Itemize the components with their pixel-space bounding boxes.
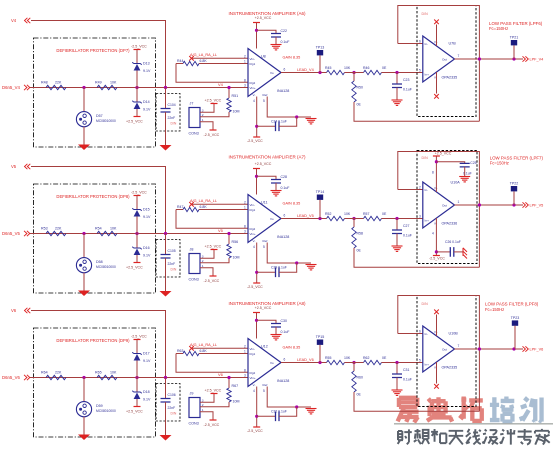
svg-text:U8: U8 bbox=[261, 55, 266, 59]
node junction testpoint out bbox=[512, 203, 515, 206]
power bar -2.5_VCC bbox=[210, 275, 217, 277]
svg-text:Vin+: Vin+ bbox=[250, 232, 256, 236]
wire zener to +2.5_VCC bbox=[136, 255, 138, 263]
svg-text:INA128: INA128 bbox=[277, 379, 289, 383]
svg-text:V6: V6 bbox=[11, 308, 17, 313]
watermark glyph small 6 bbox=[483, 429, 498, 444]
svg-text:6.8K: 6.8K bbox=[200, 349, 208, 353]
svg-text:Fc=150Hz: Fc=150Hz bbox=[490, 161, 509, 166]
no-ERC marker X bbox=[189, 202, 194, 207]
svg-text:5: 5 bbox=[263, 389, 265, 393]
svg-text:0.1uF: 0.1uF bbox=[281, 330, 290, 334]
svg-text:10M: 10M bbox=[233, 400, 240, 404]
wire feedback top rail bbox=[398, 296, 480, 412]
svg-text:R44: R44 bbox=[177, 59, 183, 63]
capacitor C106 22nF bbox=[161, 399, 171, 403]
resistor R64 22K bbox=[46, 375, 66, 379]
wire J pin2 to R 10M bbox=[200, 258, 229, 263]
node junction bypass cap bbox=[255, 319, 258, 322]
wire bypass cap to ground bbox=[464, 167, 466, 177]
ground bbox=[78, 145, 90, 151]
node junction V4 / C cap bbox=[164, 86, 167, 89]
power bar -2.5_VCC amp bbox=[253, 136, 260, 138]
svg-text:R57: R57 bbox=[363, 212, 369, 216]
resistor R53 22K bbox=[46, 231, 66, 235]
resistor R56 10M bbox=[227, 244, 231, 258]
wire Rg2 loop bbox=[176, 210, 248, 229]
svg-text:C24 0.1uF: C24 0.1uF bbox=[271, 119, 287, 123]
svg-text:Vin-: Vin- bbox=[250, 347, 255, 351]
svg-text:R62: R62 bbox=[363, 356, 369, 360]
svg-text:22K: 22K bbox=[55, 80, 62, 84]
svg-text:5: 5 bbox=[419, 69, 421, 73]
op-amp U10A OPA2336 low pass filter bbox=[423, 182, 457, 228]
node junction R divider bbox=[352, 361, 355, 364]
svg-text:-2.5_VCC: -2.5_VCC bbox=[247, 139, 263, 143]
svg-text:10M: 10M bbox=[233, 110, 240, 114]
wire to cap bbox=[165, 378, 167, 399]
svg-text:2: 2 bbox=[244, 200, 246, 204]
svg-text:1: 1 bbox=[244, 350, 246, 354]
svg-text:9.1V: 9.1V bbox=[143, 359, 151, 363]
resistor R62 0E bbox=[364, 360, 382, 364]
power bar +2.5_VCC amp bbox=[253, 312, 260, 314]
wire to R vertical bbox=[353, 219, 355, 228]
svg-text:0E: 0E bbox=[382, 356, 387, 360]
watermark glyph big 3 bbox=[459, 397, 482, 421]
watermark glyph small 5 bbox=[466, 429, 481, 444]
svg-text:V4: V4 bbox=[11, 18, 17, 23]
ground filter cap bbox=[392, 390, 403, 395]
svg-text:INSTRUMENTATION AMPLIFIER (A7): INSTRUMENTATION AMPLIFIER (A7) bbox=[228, 154, 306, 159]
svg-text:OPA2335: OPA2335 bbox=[442, 366, 458, 370]
connector chevron V5 bbox=[25, 164, 31, 169]
svg-text:INA128: INA128 bbox=[277, 89, 289, 93]
svg-text:DEFIBRILLATOR PROTECTION (DP7): DEFIBRILLATOR PROTECTION (DP7) bbox=[56, 48, 130, 53]
node junction bypass cap bbox=[255, 175, 258, 178]
no-connect X V- bbox=[434, 94, 439, 99]
svg-text:Fc=150Hz: Fc=150Hz bbox=[485, 307, 504, 312]
svg-text:-2.5_VCC: -2.5_VCC bbox=[247, 285, 263, 289]
connector J7 CON3 bbox=[189, 102, 204, 136]
svg-text:D6n5_V4: D6n5_V4 bbox=[2, 85, 21, 90]
svg-text:-2.5_VCC: -2.5_VCC bbox=[247, 429, 263, 433]
power bar -2.5_VCC amp bbox=[253, 426, 260, 428]
svg-text:D/N: D/N bbox=[171, 411, 177, 415]
svg-text:5: 5 bbox=[263, 99, 265, 103]
svg-text:V5: V5 bbox=[11, 164, 17, 169]
svg-text:9.1V: 9.1V bbox=[143, 108, 151, 112]
svg-text:C106: C106 bbox=[168, 393, 176, 397]
node junction feedback bbox=[478, 57, 481, 60]
svg-text:CON3: CON3 bbox=[189, 278, 199, 282]
resistor R48 22K bbox=[46, 85, 66, 89]
power bar +2.5_VCC bbox=[211, 103, 218, 105]
svg-text:7: 7 bbox=[458, 54, 460, 58]
svg-text:LPF_V4: LPF_V4 bbox=[530, 58, 544, 62]
node junction R divider bbox=[352, 71, 355, 74]
wire V+ pin bbox=[436, 25, 438, 46]
svg-text:Ref: Ref bbox=[263, 383, 268, 387]
svg-text:1: 1 bbox=[458, 200, 460, 204]
power bar -2.5_VCC bbox=[134, 49, 141, 51]
watermark glyph big 5 bbox=[521, 398, 542, 422]
svg-text:-2.5_VCC: -2.5_VCC bbox=[204, 423, 220, 427]
ground bypass bbox=[271, 191, 282, 196]
wire filter cap to ground bbox=[396, 234, 398, 247]
resistor R60 0E vertical bbox=[352, 371, 356, 392]
wire amp Ref bbox=[267, 97, 311, 118]
ground bbox=[78, 291, 90, 297]
svg-text:D16: D16 bbox=[143, 246, 150, 250]
svg-text:C23: C23 bbox=[403, 78, 409, 82]
zener diode D13 9.1V bbox=[132, 62, 151, 73]
capacitor C104 dashed box (D/N) bbox=[156, 94, 180, 132]
connector J8 CON3 bbox=[189, 248, 204, 282]
wire Rg2 loop bbox=[176, 354, 248, 373]
node junction testpoint out bbox=[512, 57, 515, 60]
svg-text:5: 5 bbox=[263, 245, 265, 249]
svg-text:8: 8 bbox=[244, 224, 246, 228]
svg-text:0.1uF: 0.1uF bbox=[281, 40, 290, 44]
wire ref cap to ref node bbox=[279, 263, 297, 272]
wire node to zener 2 bbox=[136, 234, 138, 249]
wire node to R 10M bbox=[228, 88, 230, 99]
wire to LPF input bbox=[382, 218, 423, 220]
ground bypass bbox=[271, 45, 282, 50]
node junction V6 / C cap bbox=[164, 376, 167, 379]
svg-text:10K: 10K bbox=[344, 212, 351, 216]
svg-text:C105: C105 bbox=[168, 249, 176, 253]
node junction LPF bypass bbox=[435, 160, 438, 163]
svg-text:V-: V- bbox=[253, 383, 256, 387]
svg-text:-2.5_VCC: -2.5_VCC bbox=[131, 45, 147, 49]
svg-text:U10B: U10B bbox=[449, 332, 459, 336]
wire to cap bbox=[165, 234, 167, 255]
svg-text:LOW PASS FILTER (LPF6): LOW PASS FILTER (LPF6) bbox=[489, 21, 543, 26]
wire +2.5_VCC to amp pin7 bbox=[256, 169, 258, 195]
svg-text:+2.5_VCC: +2.5_VCC bbox=[255, 16, 272, 20]
svg-text:D/N: D/N bbox=[422, 302, 429, 306]
watermark glyph small 4 bbox=[449, 431, 464, 445]
capacitor C106 dashed box (D/N) bbox=[156, 384, 180, 422]
svg-text:1: 1 bbox=[244, 60, 246, 64]
svg-text:DEFIBRILLATOR PROTECTION (DP8): DEFIBRILLATOR PROTECTION (DP8) bbox=[56, 194, 130, 199]
wire net V4 top loop bbox=[31, 21, 166, 88]
wire cap to slant ground bbox=[454, 251, 463, 253]
svg-text:2: 2 bbox=[244, 344, 246, 348]
connector chevron D6n5_V5 bbox=[24, 231, 30, 236]
wire between resistors bbox=[345, 362, 364, 364]
svg-text:D58: D58 bbox=[96, 260, 103, 264]
wire gas tube to ground bbox=[83, 127, 85, 145]
node junction V4 net bbox=[227, 86, 230, 89]
svg-text:R54: R54 bbox=[95, 226, 102, 230]
resistor R45 10K bbox=[327, 70, 345, 74]
test point TP23 bbox=[511, 316, 520, 349]
node junction filter cap bbox=[395, 217, 398, 220]
wire +2.5_VCC to amp pin7 bbox=[256, 23, 258, 49]
svg-text:U12: U12 bbox=[261, 345, 268, 349]
svg-text:Vin-: Vin- bbox=[250, 203, 255, 207]
capacitor C22 0.1uF bbox=[271, 34, 281, 38]
node junction V5 net bbox=[227, 232, 230, 235]
ground bbox=[160, 291, 172, 297]
capacitor C26 0.1uF bbox=[450, 247, 454, 257]
svg-text:D57: D57 bbox=[96, 114, 103, 118]
svg-text:CON3: CON3 bbox=[189, 422, 199, 426]
svg-text:Rg1: Rg1 bbox=[250, 62, 256, 66]
test point TP22 bbox=[510, 182, 519, 206]
svg-text:DEFIBRILLATOR PROTECTION (DP9): DEFIBRILLATOR PROTECTION (DP9) bbox=[56, 338, 130, 343]
ground filter cap bbox=[392, 100, 403, 105]
svg-text:D14: D14 bbox=[143, 100, 150, 104]
svg-text:In-: In- bbox=[425, 42, 429, 46]
svg-text:2: 2 bbox=[419, 186, 421, 190]
ground filter cap bbox=[392, 246, 403, 251]
capacitor C105 dashed box (D/N) bbox=[156, 240, 180, 278]
svg-text:3: 3 bbox=[244, 230, 246, 234]
svg-text:In+: In+ bbox=[425, 219, 430, 223]
svg-text:C30: C30 bbox=[281, 319, 287, 323]
node junction ref cap bbox=[255, 271, 258, 274]
svg-text:R46: R46 bbox=[363, 66, 369, 70]
svg-text:4: 4 bbox=[432, 232, 434, 236]
ground bbox=[160, 435, 172, 441]
svg-text:0E: 0E bbox=[357, 249, 362, 253]
wire to gas tube bbox=[83, 378, 85, 402]
power bar +2.5_VCC bbox=[134, 262, 141, 264]
svg-text:Vin+: Vin+ bbox=[250, 86, 256, 90]
svg-text:Vo: Vo bbox=[270, 361, 274, 365]
resistor R50 0E vertical bbox=[352, 81, 356, 102]
wire to bypass cap bbox=[257, 176, 277, 179]
resistor R51 10M bbox=[227, 98, 231, 112]
gas discharge tube D58 MC08010000 bbox=[76, 258, 116, 273]
resistor R44 6.8K bbox=[183, 61, 199, 65]
svg-text:0E: 0E bbox=[357, 393, 362, 397]
svg-text:8: 8 bbox=[244, 78, 246, 82]
svg-text:Out: Out bbox=[442, 203, 447, 207]
wire to gas tube bbox=[83, 234, 85, 258]
capacitor C104 22nF bbox=[161, 109, 171, 113]
wire Vin- input bbox=[192, 347, 249, 349]
resistor R52 10K bbox=[327, 216, 345, 220]
wire net V5 top loop bbox=[31, 167, 166, 234]
svg-text:0E: 0E bbox=[382, 212, 387, 216]
svg-text:D17: D17 bbox=[143, 352, 150, 356]
svg-text:R49: R49 bbox=[95, 80, 102, 84]
capacitor C105 22nF bbox=[161, 255, 171, 259]
svg-text:D13: D13 bbox=[143, 62, 150, 66]
wire gas tube to ground bbox=[83, 273, 85, 291]
op-amp U8 INA128 instrumentation amplifier bbox=[248, 49, 289, 98]
wire Rg1 bbox=[199, 63, 248, 65]
svg-text:2: 2 bbox=[244, 54, 246, 58]
watermark glyph small 7 bbox=[500, 429, 515, 445]
svg-text:Rg2: Rg2 bbox=[250, 371, 256, 375]
connector chevron D6n5_V4 bbox=[24, 85, 30, 90]
svg-text:-2.5_VCC: -2.5_VCC bbox=[204, 133, 220, 137]
wire zener to node bbox=[136, 361, 138, 378]
svg-text:D6n5_V6: D6n5_V6 bbox=[2, 375, 21, 380]
watermark underline bbox=[394, 423, 553, 425]
power bar +2.5_VCC bbox=[134, 116, 141, 118]
capacitor C28 0.1uF bbox=[271, 180, 281, 184]
svg-text:9.1V: 9.1V bbox=[143, 254, 151, 258]
no-ERC marker X bbox=[189, 346, 194, 351]
ground ref bbox=[306, 119, 317, 124]
svg-text:J8: J8 bbox=[190, 248, 194, 252]
wire to ref cap bbox=[257, 271, 276, 273]
ground bypass bbox=[271, 335, 282, 340]
svg-text:0.1uF: 0.1uF bbox=[281, 186, 290, 190]
wire node to R 10M bbox=[228, 234, 230, 245]
power bar +2.5_VCC bbox=[134, 406, 141, 408]
wire Rg1 loop left bbox=[176, 63, 183, 65]
wire cap to ground bbox=[275, 327, 277, 335]
gas discharge tube D57 MC08010000 bbox=[76, 112, 116, 127]
wire to LPF bypass cap bbox=[436, 162, 464, 164]
wire cap to ground bbox=[165, 402, 167, 435]
wire to R vertical bbox=[353, 363, 355, 372]
wire main signal net V5 bbox=[30, 233, 248, 235]
node junction filter cap bbox=[395, 71, 398, 74]
svg-text:+2.5_VCC: +2.5_VCC bbox=[205, 389, 222, 393]
wire feedback top rail bbox=[398, 152, 480, 268]
wire amp V- to -2.5_VCC bbox=[256, 97, 258, 138]
wire ref cap to ref node bbox=[279, 407, 297, 416]
zener diode D16 9.1V bbox=[132, 246, 151, 257]
svg-text:R47: R47 bbox=[177, 205, 183, 209]
node junction V5 / C cap bbox=[164, 232, 167, 235]
svg-text:-2.5_VCC: -2.5_VCC bbox=[429, 257, 445, 261]
svg-text:6: 6 bbox=[419, 330, 421, 334]
svg-text:3: 3 bbox=[244, 374, 246, 378]
svg-text:+2.5_VCC: +2.5_VCC bbox=[255, 162, 272, 166]
svg-text:-2.5_VCC: -2.5_VCC bbox=[204, 279, 220, 283]
wire gas tube to ground bbox=[83, 417, 85, 435]
test point TP13 bbox=[316, 46, 325, 73]
svg-text:4: 4 bbox=[253, 389, 255, 393]
low pass filter block LPF6 dashed box bbox=[417, 6, 476, 117]
svg-text:R52: R52 bbox=[325, 212, 331, 216]
svg-text:GAIN 8.35: GAIN 8.35 bbox=[283, 346, 301, 350]
svg-text:R67: R67 bbox=[232, 384, 239, 388]
svg-text:R55: R55 bbox=[325, 356, 331, 360]
svg-text:+2.5_VCC: +2.5_VCC bbox=[126, 266, 143, 270]
svg-text:0.1uF: 0.1uF bbox=[403, 88, 412, 92]
capacitor C24 0.1uF ref bbox=[276, 122, 280, 132]
wire V+ pin bbox=[436, 315, 438, 336]
op-amp U7B OPA2335 low pass filter bbox=[423, 36, 457, 82]
node junction ref cap 2 bbox=[295, 405, 298, 408]
wire to gas tube bbox=[83, 88, 85, 112]
svg-text:C27: C27 bbox=[403, 224, 409, 228]
svg-text:GAIN 8.35: GAIN 8.35 bbox=[283, 56, 301, 60]
ground bbox=[160, 145, 172, 151]
svg-text:6: 6 bbox=[284, 68, 286, 72]
ground bbox=[78, 435, 90, 441]
wire Rg2 loop bbox=[176, 64, 248, 83]
gas discharge tube D59 MC08010000 bbox=[76, 402, 116, 417]
svg-text:J9: J9 bbox=[190, 392, 194, 396]
resistor R49 10K bbox=[97, 85, 117, 89]
svg-text:10K: 10K bbox=[110, 370, 117, 374]
resistor R67 10M bbox=[227, 388, 231, 402]
zener diode D18 9.1V bbox=[132, 390, 151, 401]
svg-text:Ref: Ref bbox=[263, 93, 268, 97]
wire between resistors bbox=[345, 72, 364, 74]
svg-text:J7: J7 bbox=[190, 102, 194, 106]
capacitor C25 0.1uF bbox=[460, 163, 470, 167]
svg-text:C32 0.1uF: C32 0.1uF bbox=[271, 409, 287, 413]
node junction zener column bbox=[135, 232, 138, 235]
capacitor C30 0.1uF bbox=[271, 324, 281, 328]
wire Rg1 bbox=[199, 209, 248, 211]
low pass filter block LPF8 dashed box bbox=[417, 296, 476, 407]
wire Rg1 loop left bbox=[176, 353, 183, 355]
wire LPF output LPF_V4 bbox=[455, 58, 524, 60]
watermark glyph small 1 bbox=[398, 429, 412, 444]
wire to LPF input bbox=[382, 72, 423, 74]
wire amp V- to -2.5_VCC bbox=[256, 243, 258, 284]
svg-text:INA128: INA128 bbox=[277, 235, 289, 239]
power bar -2.5_VCC amp bbox=[253, 282, 260, 284]
svg-text:0E: 0E bbox=[357, 103, 362, 107]
svg-text:0.1uF: 0.1uF bbox=[403, 378, 412, 382]
svg-text:V+: V+ bbox=[434, 40, 438, 44]
wire feedback to In- input bbox=[398, 333, 423, 335]
wire -2.5_VCC to zener bbox=[136, 340, 138, 354]
svg-text:TP15: TP15 bbox=[316, 335, 325, 339]
wire V- pin bbox=[436, 362, 438, 383]
power bar +2.5_VCC amp bbox=[253, 22, 260, 24]
wire to R vertical bbox=[353, 73, 355, 82]
wire node to R 10M bbox=[228, 378, 230, 389]
test point TP21 bbox=[510, 36, 519, 60]
defibrillator protection block DP7 dashed box bbox=[34, 38, 156, 147]
wire -2.5_VCC to zener bbox=[136, 50, 138, 64]
wire amp V- to -2.5_VCC bbox=[256, 387, 258, 428]
defibrillator protection block DP9 dashed box bbox=[34, 328, 156, 437]
svg-text:C31: C31 bbox=[403, 368, 409, 372]
wire +2.5_VCC to amp pin7 bbox=[256, 313, 258, 339]
wire amp output LEAD_V6 bbox=[281, 362, 327, 364]
svg-text:OPA2335: OPA2335 bbox=[442, 76, 458, 80]
node junction feedback bbox=[478, 347, 481, 350]
wire to LPF input bbox=[382, 362, 423, 364]
svg-text:5: 5 bbox=[419, 359, 421, 363]
svg-text:7: 7 bbox=[458, 344, 460, 348]
node junction testpoint bbox=[318, 71, 321, 74]
svg-text:C25: C25 bbox=[470, 161, 476, 165]
wire feedback bottom rail bbox=[354, 392, 479, 411]
svg-text:Fc=150Hz: Fc=150Hz bbox=[489, 26, 508, 31]
svg-text:D/N: D/N bbox=[422, 156, 429, 160]
svg-text:In+: In+ bbox=[425, 363, 430, 367]
node junction testpoint out bbox=[512, 347, 515, 350]
svg-text:TP23: TP23 bbox=[511, 316, 520, 320]
svg-text:U10A: U10A bbox=[451, 181, 461, 185]
node junction ref cap 2 bbox=[295, 115, 298, 118]
wire feedback top rail bbox=[398, 6, 480, 122]
wire feedback to In- input bbox=[398, 43, 423, 45]
svg-text:Vin-: Vin- bbox=[250, 57, 255, 61]
node junction R divider bbox=[352, 217, 355, 220]
svg-text:0.1uF: 0.1uF bbox=[403, 234, 412, 238]
wire cap to ground bbox=[165, 112, 167, 145]
